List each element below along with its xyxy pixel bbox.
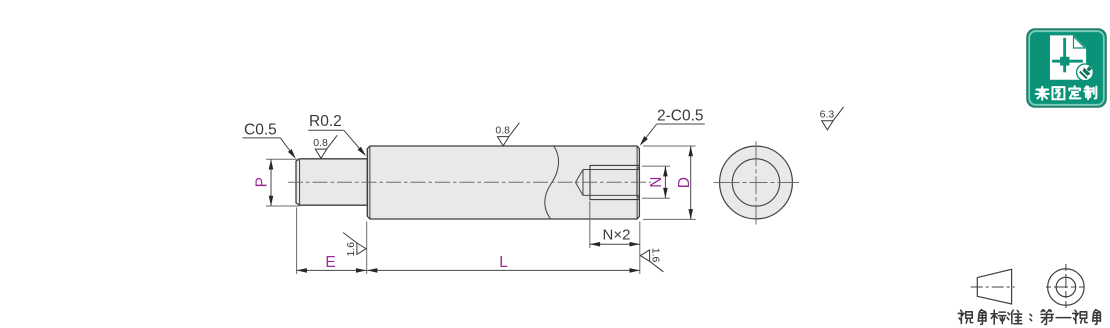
dimension P extension lines — [266, 159, 300, 206]
small shaft section (pilot dia P) — [296, 159, 367, 205]
dimension E line with arrows — [297, 268, 367, 273]
label C0.5 with leader — [242, 122, 297, 161]
projection symbol: circles — [1048, 269, 1085, 306]
tapped hole: drill cone — [576, 170, 584, 196]
break/section S-curve — [545, 146, 559, 219]
step extension line — [366, 222, 368, 275]
dimension L line with arrows — [367, 268, 640, 273]
svg-text:N×2: N×2 — [603, 226, 631, 243]
right face extension line — [639, 222, 641, 275]
dimension N×2 line with arrows — [590, 242, 640, 247]
svg-text:P: P — [254, 177, 271, 187]
D extension lines — [643, 146, 696, 219]
main centerline — [288, 181, 651, 183]
badge: stamp circle — [1077, 64, 1095, 81]
svg-text:1.6: 1.6 — [650, 248, 662, 263]
roughness 0.8 on body top — [495, 123, 519, 146]
dimension D line with arrows — [688, 146, 693, 219]
badge: text 来图定制 — [1036, 86, 1097, 99]
projection symbol: cross centerlines — [1046, 264, 1086, 309]
svg-text:D: D — [676, 177, 693, 188]
end view: horizontal centerline — [714, 182, 800, 184]
svg-text:N: N — [648, 177, 665, 188]
dimension N line with arrows — [663, 166, 668, 198]
tapped hole: minor (drill) lines — [583, 170, 639, 196]
svg-text:2-C0.5: 2-C0.5 — [657, 108, 704, 125]
E left extension line — [296, 208, 298, 275]
roughness 1.6 at right face — [640, 248, 663, 272]
roughness 0.8 on pilot top — [313, 135, 337, 158]
projection symbol: cone centerline — [971, 286, 1015, 288]
svg-text:1.6: 1.6 — [345, 242, 357, 257]
roughness 6.3 general — [820, 107, 844, 130]
badge: custom-drawing green plate — [1027, 29, 1106, 107]
N extension lines — [642, 166, 670, 198]
label 2-C0.5 with leader — [638, 108, 705, 148]
svg-text:0.8: 0.8 — [313, 137, 328, 149]
main body section (dia D) — [367, 146, 639, 219]
badge: document icon — [1050, 35, 1086, 79]
svg-text:R0.2: R0.2 — [309, 113, 342, 130]
dimension P line with arrows — [269, 159, 274, 206]
end view: outer circle — [720, 146, 793, 219]
tapped hole: major thread outline — [590, 165, 639, 199]
end view: vertical centerline — [755, 141, 757, 224]
svg-text:E: E — [325, 254, 335, 271]
projection symbol: truncated cone — [977, 269, 1011, 304]
svg-text:6.3: 6.3 — [820, 109, 835, 121]
N×2 left extension line — [589, 201, 591, 248]
roughness 1.6 at step face — [343, 233, 366, 257]
svg-text:C0.5: C0.5 — [244, 122, 277, 139]
label R0.2 with leader — [308, 113, 368, 158]
step face line — [366, 149, 368, 217]
caption 视角标准：第一视角 — [958, 310, 1100, 325]
end view: inner circle — [732, 159, 779, 206]
svg-text:L: L — [499, 254, 508, 271]
svg-text:0.8: 0.8 — [495, 125, 510, 137]
